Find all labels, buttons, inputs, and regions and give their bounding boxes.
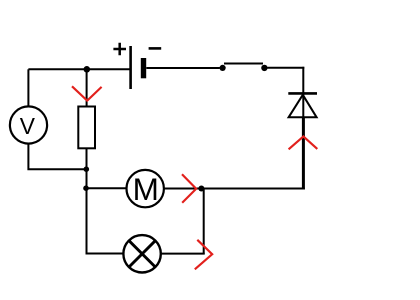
svg-text:V: V xyxy=(20,113,36,139)
svg-text:M: M xyxy=(133,171,159,207)
